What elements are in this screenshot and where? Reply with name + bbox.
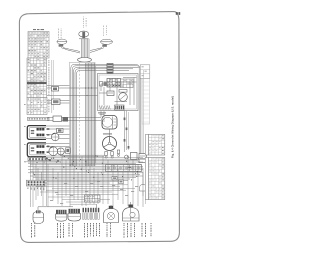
regulator label xyxy=(98,112,106,115)
cluster hatch part xyxy=(100,106,111,110)
RH tail lamp B xyxy=(68,209,81,221)
branch wires to left blocks xyxy=(24,60,101,162)
junction cluster xyxy=(46,157,59,161)
rear harness connector block xyxy=(27,180,46,186)
horn assembly xyxy=(79,31,89,39)
buzzer unit B1 xyxy=(57,148,64,155)
mesh labels xyxy=(50,181,138,204)
table lower left band xyxy=(145,158,148,200)
rear block labels xyxy=(28,188,45,191)
small rear bell lamp xyxy=(140,185,147,192)
wire color code table upper xyxy=(149,135,165,156)
mesh vertical drops xyxy=(31,156,144,207)
bulkhead panel ladder xyxy=(142,79,150,125)
left margin row labels xyxy=(24,104,26,162)
connector pair C4 xyxy=(57,129,64,133)
firewall connector xyxy=(78,58,92,63)
tail lamp feed wire xyxy=(38,207,73,210)
fuel gauge G2 xyxy=(119,90,128,102)
rear junction box xyxy=(85,195,101,202)
main harness vertical run xyxy=(70,62,96,166)
page frame xyxy=(19,12,179,243)
LH lamp label xyxy=(58,29,61,39)
instrument cluster box xyxy=(98,74,139,111)
flasher unit F2 xyxy=(49,147,58,156)
backup lamp dome xyxy=(123,205,140,222)
dash harness horizontal bundle xyxy=(71,64,142,166)
resistor block R1 xyxy=(53,116,68,122)
stoplight switch S3 xyxy=(52,87,59,92)
table upper left band xyxy=(145,135,148,156)
indicator lamps xyxy=(100,82,107,87)
flasher unit F1 xyxy=(51,133,59,141)
junction relay strip xyxy=(106,165,142,172)
generator/alternator M1 xyxy=(103,137,117,151)
ignition switch S1 xyxy=(27,126,46,140)
mesh junction dots xyxy=(33,155,139,180)
net labels left harness xyxy=(48,60,51,95)
RH tail lamp A xyxy=(56,210,67,221)
horn label xyxy=(83,17,86,28)
amp gauge boxes xyxy=(112,177,124,184)
fuse block CB2 xyxy=(27,58,47,98)
bottom component labels xyxy=(31,223,152,238)
cluster connector J1 xyxy=(107,79,121,88)
cluster to regulator wires xyxy=(101,111,110,137)
fuel tank sender xyxy=(104,206,119,223)
generator terminals xyxy=(105,150,120,158)
front lighting wires xyxy=(61,39,104,58)
cluster internal wires xyxy=(99,78,137,106)
rear feed wires xyxy=(97,172,146,209)
page number 129 xyxy=(176,12,180,15)
generator label xyxy=(103,133,112,134)
firewall junction block xyxy=(140,65,150,79)
block title text xyxy=(33,29,44,30)
cluster lower connector xyxy=(115,105,125,110)
cluster connector J2 xyxy=(121,79,134,88)
voltage regulator VR1 xyxy=(102,116,117,130)
license plate lamp xyxy=(130,212,135,217)
horn relay parts xyxy=(125,153,147,163)
fuse block dark band xyxy=(27,82,47,84)
svg-text:Fig. 6.4 Chevrolet Wiring Diag: Fig. 6.4 Chevrolet Wiring Diagram (U.S. … xyxy=(170,96,174,158)
RH front park/turn lamp xyxy=(101,39,113,47)
heater switch S5 xyxy=(66,148,71,154)
LH front park/turn lamp xyxy=(57,39,67,47)
LH tail lamp xyxy=(33,210,44,223)
rear connector strip pins xyxy=(83,208,100,219)
terminal strip TS2 xyxy=(28,157,47,160)
ignition coil xyxy=(107,64,113,74)
gauge G1 xyxy=(107,91,114,96)
connector block CB3 xyxy=(27,98,47,115)
RH lamp label xyxy=(103,26,106,36)
terminal strip TS1 xyxy=(28,117,50,120)
right harness vertical run xyxy=(142,70,144,156)
dimmer switch S4 xyxy=(52,99,61,105)
distributor run xyxy=(124,111,130,153)
connector block CB1 xyxy=(28,32,49,59)
light switch S2 xyxy=(27,143,46,157)
net labels left harness 2 xyxy=(48,99,51,112)
body wiring mesh band xyxy=(28,155,161,204)
wire color code table lower xyxy=(149,158,165,200)
wire end connectors xyxy=(47,128,50,153)
